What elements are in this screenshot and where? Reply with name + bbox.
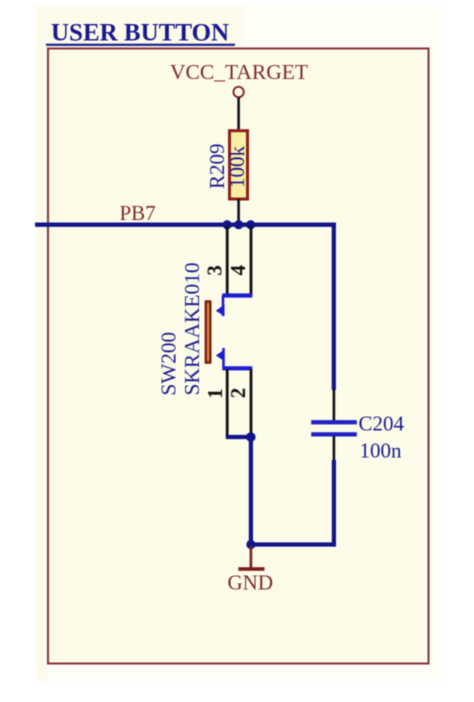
wire right vertical (to capacitor) — [332, 223, 336, 391]
pin: resistor R209 bottom pin — [237, 199, 240, 224]
switch SW200 pin 4 line — [250, 226, 253, 295]
svg-text:PB7: PB7 — [120, 201, 156, 225]
switch bottom contact stem — [222, 348, 225, 367]
wire GND node to capacitor bottom — [251, 542, 336, 546]
title-area cream patch — [47, 6, 242, 47]
switch SW200 pin 2 line — [250, 369, 253, 437]
junction dot at pin3 — [223, 220, 232, 229]
wire capacitor bottom to GND net — [332, 460, 336, 547]
switch SW200 pin 3 line — [226, 226, 229, 295]
GND bar — [238, 567, 264, 571]
svg-text:1: 1 — [203, 388, 227, 399]
svg-text:SW200: SW200 — [157, 332, 181, 396]
switch top contact stem — [222, 296, 225, 317]
switch SW200 pin 1 line — [226, 369, 229, 437]
switch top contact arrow — [216, 305, 225, 317]
region box USER BUTTON — [48, 49, 429, 664]
svg-text:100k: 100k — [225, 146, 249, 189]
pin: resistor R209 top pin — [237, 98, 240, 131]
svg-text:100n: 100n — [360, 439, 403, 463]
svg-text:VCC_TARGET: VCC_TARGET — [170, 60, 308, 84]
power port circle — [233, 87, 243, 97]
pin: capacitor C204 bottom pin — [333, 436, 336, 461]
switch actuator bar SW200 — [205, 300, 212, 364]
svg-text:USER BUTTON: USER BUTTON — [51, 20, 229, 47]
junction dot at pin2 bottom — [246, 432, 256, 442]
switch bottom contact bar — [222, 366, 252, 370]
svg-text:2: 2 — [226, 388, 250, 399]
svg-text:4: 4 — [226, 265, 250, 276]
svg-text:GND: GND — [228, 571, 274, 595]
svg-text:SKRAAKE010: SKRAAKE010 — [180, 262, 204, 395]
switch bottom contact arrow — [216, 350, 225, 362]
pin: capacitor C204 top pin — [333, 389, 336, 421]
title underline — [46, 44, 235, 46]
wire PB7 horizontal — [35, 222, 336, 226]
capacitor C204 top plate — [311, 420, 357, 424]
wire down to GND junction — [249, 437, 253, 545]
left margin cream strip — [36, 6, 47, 681]
junction dot at GND node — [246, 540, 255, 549]
svg-text:3: 3 — [203, 265, 227, 276]
wire connecting pin1 and pin2 bottoms — [226, 435, 251, 439]
GND stub — [250, 546, 253, 568]
capacitor C204 bottom plate — [311, 432, 357, 436]
resistor R209 body — [230, 131, 248, 199]
junction dot at pin4 — [246, 220, 255, 229]
svg-text:C204: C204 — [359, 412, 405, 436]
junction dot at resistor pin — [234, 220, 243, 229]
switch top contact bar — [222, 293, 252, 297]
